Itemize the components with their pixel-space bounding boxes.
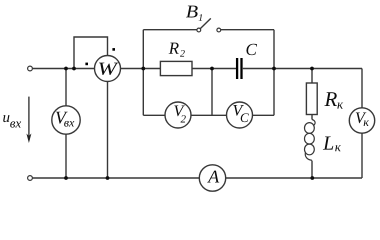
wire Lk bottom — [311, 161, 313, 178]
node dot bottom wire Lk — [310, 176, 314, 180]
wire V2 VC branch seg2 — [191, 114, 227, 116]
wire middle tap vertical — [211, 69, 213, 116]
wattmeter voltage loop — [74, 37, 108, 69]
wire top main segment 2 — [121, 68, 161, 70]
wire V2 VC branch seg1 — [143, 114, 165, 116]
label B1 — [186, 6, 202, 21]
wire W down branch — [107, 82, 109, 179]
wire V2 VC branch seg3 — [253, 114, 275, 116]
node dot main wire box right — [272, 67, 276, 71]
arrowhead u input — [26, 134, 31, 144]
switch B1 contact left — [197, 28, 201, 32]
node dot main wire Rk — [310, 67, 314, 71]
polarity mark W left — [85, 63, 88, 66]
wire B1 right — [221, 29, 274, 31]
wire parallel box left vertical — [142, 30, 144, 116]
resistor R2 — [160, 61, 192, 75]
resistor Rk — [306, 83, 317, 115]
label C — [246, 44, 257, 55]
wire bottom segment 1 — [33, 177, 200, 179]
label V2 — [174, 106, 185, 123]
voltmeter VC — [227, 102, 253, 128]
wire top main segment 3 — [192, 68, 236, 70]
node dot main wire Vvx — [64, 67, 68, 71]
label A — [207, 171, 219, 183]
switch B1 contact right — [217, 28, 221, 32]
label R2 — [169, 43, 185, 57]
terminal input top — [28, 66, 33, 71]
wattmeter W — [95, 56, 121, 82]
capacitor C plate right — [240, 58, 242, 79]
node dot main wire box left — [141, 67, 145, 71]
wire Rk branch top — [311, 69, 313, 84]
label u_vx — [3, 115, 21, 128]
label Vk — [356, 113, 369, 126]
terminal input bottom — [28, 176, 33, 181]
node dot main wire W loop — [72, 67, 76, 71]
wire B1 left — [143, 29, 197, 31]
node dot bottom wire Vvx — [64, 176, 68, 180]
arrow u input — [28, 97, 30, 140]
label Rk — [324, 92, 343, 108]
voltmeter Vvx — [52, 106, 80, 134]
ammeter A — [199, 165, 225, 191]
voltmeter Vk — [349, 108, 374, 133]
switch B1 blade — [200, 18, 211, 28]
wire top main segment 4 — [243, 68, 362, 70]
label Lk — [323, 137, 341, 152]
wire Vvx branch upper — [65, 69, 67, 106]
wire bottom segment 2 — [226, 177, 362, 179]
inductor Lk — [305, 120, 316, 161]
wire right vertical upper — [361, 69, 363, 108]
node dot main wire middle tap — [210, 67, 214, 71]
wire parallel box right vertical — [273, 30, 275, 116]
capacitor C plate left — [236, 58, 238, 79]
wire top main segment 1 — [33, 68, 95, 70]
wire Vvx branch lower — [65, 134, 67, 178]
node dot bottom wire W — [106, 176, 110, 180]
label Vvx — [56, 112, 74, 127]
polarity mark W top — [112, 48, 115, 51]
label W — [99, 63, 119, 75]
wire Rk to Lk — [311, 115, 313, 120]
label VC — [233, 105, 248, 122]
wire right vertical lower — [361, 133, 363, 178]
voltmeter V2 — [165, 102, 191, 128]
